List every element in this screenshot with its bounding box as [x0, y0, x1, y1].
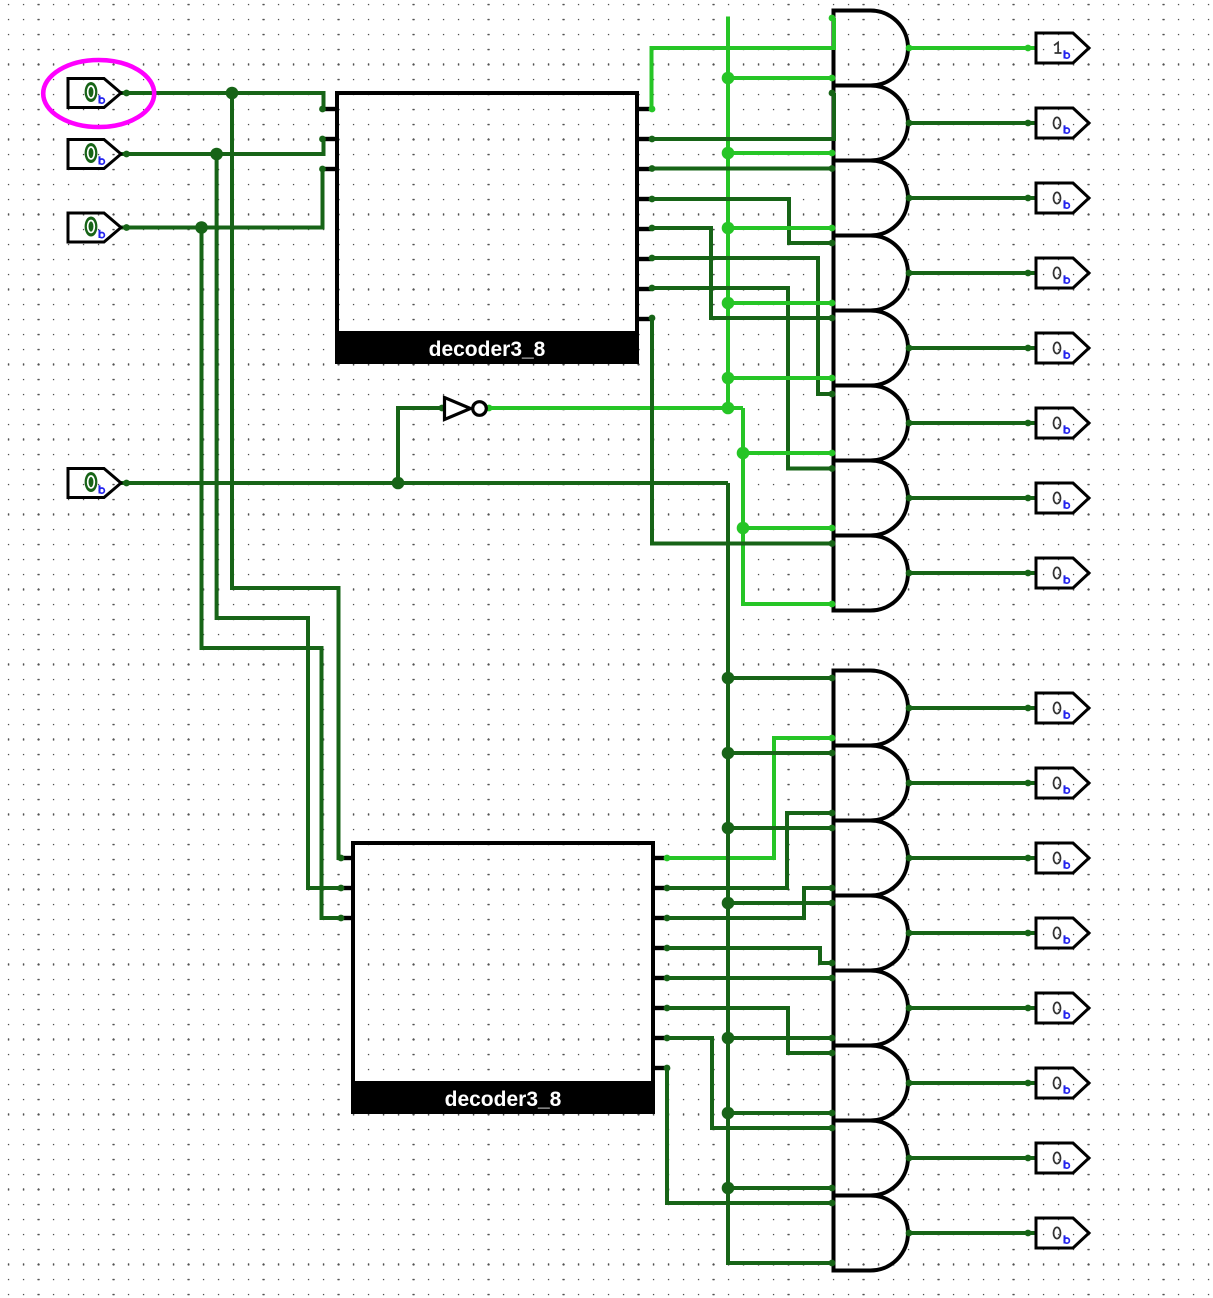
wire NOT-E south trunk	[743, 408, 834, 604]
output pin OUT6 (value 0)	[1036, 483, 1089, 513]
wire G15 output to OUT14	[908, 1156, 1036, 1160]
AND gate G5	[834, 311, 909, 386]
wire U2.Y6 to G15 pin1	[666, 1038, 834, 1128]
wire G4 output to OUT3	[908, 271, 1036, 275]
wire U2.Y5 to G14 pin1	[666, 1008, 834, 1053]
endpoint dots G10 output	[906, 780, 1032, 787]
output pin OUT5 (value 0)	[1036, 408, 1089, 438]
wire E south trunk	[728, 483, 834, 1263]
junction NOT-E at inverter output	[722, 402, 735, 415]
endpoint dots net C	[123, 166, 344, 922]
AND gate G8	[834, 536, 909, 611]
AND gate G4	[834, 236, 908, 311]
output pin OUT2 (value 0)	[1036, 183, 1089, 213]
output pin OUT13 (value 0)	[1036, 1068, 1089, 1098]
wire U2.Y4 to G13 pin1	[666, 976, 834, 980]
endpoint dots G15 output	[906, 1155, 1032, 1162]
wire E up to inverter input	[398, 408, 443, 483]
endpoint dots U2.Y5 net	[664, 1005, 836, 1057]
endpoint dot at inverter output	[486, 405, 836, 608]
wire U2.Y1 to G10 pin2	[666, 813, 834, 888]
wire U1.Y3 to G4 pin1	[651, 199, 834, 243]
junctions on NOT-E trunk	[722, 72, 750, 535]
endpoint dots net B	[123, 136, 344, 892]
wire U2.Y7 to G16 pin1	[667, 1068, 834, 1203]
endpoint dots G3 output	[906, 195, 1032, 202]
inverter U3 (NOT gate)	[445, 398, 487, 420]
wire G16 output to OUT15	[908, 1231, 1036, 1235]
wire G12 output to OUT11	[908, 931, 1036, 935]
input pin IN2 (value 0)	[68, 140, 121, 169]
wire G11 output to OUT10	[908, 856, 1036, 860]
endpoint dots net NOT-E	[829, 75, 836, 532]
wire G8 output to OUT7	[908, 571, 1036, 575]
endpoint dots G9 output	[906, 705, 1032, 712]
endpoint dots net E	[123, 405, 835, 1267]
AND gate G15	[834, 1121, 909, 1196]
wire U2.Y2 to G11 pin2	[666, 888, 834, 918]
AND gate G2	[834, 86, 909, 161]
endpoint dots G16 output	[906, 1230, 1032, 1237]
endpoint dots G1 output	[906, 45, 1032, 52]
wire U1.Y6 to G7 pin1	[651, 288, 834, 469]
endpoint dots U2.Y1 net	[664, 810, 836, 892]
endpoint dots G12 output	[906, 930, 1032, 937]
output pin OUT3 (value 0)	[1036, 258, 1089, 288]
wire IN2 branch down to U2 input B	[217, 154, 341, 888]
svg-text:decoder3_8: decoder3_8	[429, 338, 546, 361]
AND gate G13	[834, 971, 909, 1046]
endpoint dots U2.Y4 net	[664, 975, 836, 982]
wire U1.Y1 to G2 pin1	[651, 93, 834, 139]
endpoint dots G2 output	[906, 120, 1032, 127]
junction on net B	[210, 148, 223, 161]
output pin OUT9 (value 0)	[1036, 768, 1089, 798]
AND gate G1	[834, 11, 909, 86]
wire E branches to bottom AND gates	[728, 678, 834, 1188]
svg-text:decoder3_8: decoder3_8	[445, 1088, 562, 1111]
wire IN2 to U1 input B	[121, 139, 324, 154]
output pin OUT0 (value 1)	[1036, 33, 1089, 63]
endpoint dots U2.Y7 net	[664, 1065, 836, 1207]
wire U1.Y7 to G8 pin1	[652, 318, 834, 544]
input pin IN1 (value 0)	[68, 79, 121, 108]
decoder U2 output pin stubs (Y0..Y7)	[652, 858, 666, 1068]
endpoint dots U1.Y7 net	[649, 315, 836, 547]
AND gate G11	[834, 821, 909, 896]
wire G9 output to OUT8	[908, 706, 1036, 710]
AND gate G6	[834, 386, 909, 461]
AND gate G10	[834, 746, 909, 821]
endpoint dots G11 output	[906, 855, 1032, 862]
AND gate G9	[834, 671, 909, 746]
wire U2.Y0 to G9 pin2 (high)	[666, 738, 834, 858]
AND gate G16	[834, 1196, 909, 1271]
output pin OUT10 (value 0)	[1036, 843, 1089, 873]
wire G10 output to OUT9	[908, 781, 1036, 785]
endpoint dots G6 output	[906, 420, 1032, 427]
highlight ellipse around input pin IN1	[43, 60, 154, 127]
wire G5 output to OUT4	[908, 346, 1036, 350]
input pin IN4 (value 0)	[68, 469, 121, 498]
endpoint dots U1.Y6 net	[649, 285, 836, 472]
endpoint dots G5 output	[906, 345, 1032, 352]
output pin OUT8 (value 0)	[1036, 693, 1089, 723]
output pin OUT7 (value 0)	[1036, 558, 1089, 588]
AND gate G3	[834, 161, 909, 236]
wire U2.Y3 to G12 pin2	[666, 948, 834, 963]
wire IN3 to U1 input C	[121, 169, 323, 228]
wire U1.Y4 to G5 pin1	[651, 228, 834, 318]
output pin OUT12 (value 0)	[1036, 993, 1089, 1023]
wire U1.Y0 to G1 pin1 (high)	[651, 18, 834, 109]
endpoint dots G14 output	[906, 1080, 1032, 1087]
endpoint dots U1.Y1 net	[649, 90, 836, 143]
wire G6 output to OUT5	[908, 421, 1036, 425]
wire G3 output to OUT2	[908, 196, 1036, 200]
junction E at inverter branch	[392, 477, 405, 490]
endpoint dots U2.Y3 net	[664, 945, 836, 967]
wire G2 output to OUT1	[908, 121, 1036, 125]
wire IN1 branch down to U2 input A	[232, 93, 341, 858]
output pin OUT4 (value 0)	[1036, 333, 1089, 363]
endpoint dots U1.Y5 net	[649, 255, 836, 398]
wire NOT-E from inverter to trunk	[487, 406, 743, 410]
decoder U2 input pin stubs (A,B,C)	[339, 858, 353, 918]
wire U1.Y2 to G3 pin1	[651, 167, 834, 171]
output pin OUT15 (value 0)	[1036, 1218, 1089, 1248]
input pin IN3 (value 0)	[68, 213, 121, 242]
endpoint dots U2.Y2 net	[664, 885, 836, 922]
endpoint dots G7 output	[906, 495, 1032, 502]
endpoint dots U1.Y2 net	[649, 165, 836, 172]
wire IN1 to U1 input A	[121, 93, 324, 109]
decoder U2 (decoder3_8)	[351, 843, 655, 1114]
wire G13 output to OUT12	[908, 1006, 1036, 1010]
endpoint dots net A	[123, 90, 344, 862]
junction on net C	[195, 221, 208, 234]
endpoint dots G8 output	[906, 570, 1032, 577]
junction on net A	[226, 87, 239, 100]
wire G1 output to OUT0	[908, 46, 1036, 50]
junctions on E trunk	[722, 672, 735, 1195]
endpoint dots U1.Y4 net	[649, 225, 836, 322]
wire NOT-E north trunk	[726, 17, 730, 409]
endpoint dots U1.Y0 net	[649, 15, 836, 113]
wire G14 output to OUT13	[908, 1081, 1036, 1085]
endpoint dots U2.Y6 net	[664, 1035, 836, 1132]
output pin OUT11 (value 0)	[1036, 918, 1089, 948]
decoder U1 (decoder3_8)	[335, 93, 639, 364]
output pin OUT1 (value 0)	[1036, 108, 1089, 138]
decoder U1 output pin stubs (Y0..Y7)	[637, 109, 651, 319]
AND gate G7	[834, 461, 909, 536]
wire U1.Y5 to G6 pin1	[651, 258, 834, 394]
endpoint dots G4 output	[906, 270, 1032, 277]
AND gate G12	[834, 896, 909, 971]
endpoint dots U2.Y0 net	[664, 735, 836, 862]
decoder U1 input pin stubs (A,B,C)	[324, 109, 338, 169]
endpoint dots G13 output	[906, 1005, 1032, 1012]
wire IN4 east run	[121, 481, 728, 485]
wire NOT-E branches to top AND gates	[728, 78, 834, 528]
endpoint dots U1.Y3 net	[649, 196, 836, 247]
AND gate G14	[834, 1046, 909, 1121]
wire G7 output to OUT6	[908, 496, 1036, 500]
output pin OUT14 (value 0)	[1036, 1143, 1089, 1173]
wire IN3 branch down to U2 input C	[202, 228, 342, 919]
